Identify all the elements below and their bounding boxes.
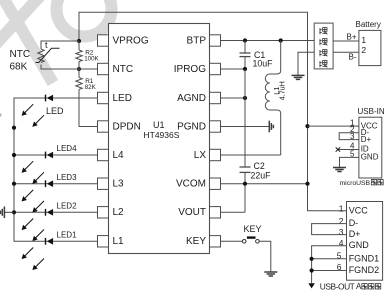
ground PGND (sideways) (269, 121, 273, 133)
pin DPDN (U1 pin box) (98, 121, 141, 133)
wire BTP to battery protection (221, 40, 315, 42)
svg-text:VPROG: VPROG (113, 35, 149, 46)
svg-text:microUSB: microUSB (340, 180, 371, 187)
pin VPROG (U1 pin box) (98, 35, 149, 47)
node rail mid dot (12, 126, 16, 130)
connector USB-OUT (type A) (337, 202, 383, 281)
svg-text:10uF: 10uF (253, 59, 274, 69)
svg-text:HT4936S: HT4936S (144, 130, 180, 140)
wire top rail from NTC divider to right rail (79, 12, 347, 211)
wire AGND to vertical (221, 97, 246, 99)
wire USB-OUT D-/D+ jumper (312, 224, 347, 235)
pin L4 (U1 pin box) (98, 149, 125, 161)
battery connector (356, 20, 381, 65)
svg-text:Battery: Battery (356, 20, 381, 29)
node FGND2 junction (310, 268, 314, 272)
node AGND junction (243, 96, 247, 100)
svg-text:2: 2 (339, 216, 344, 226)
svg-text:LED2: LED2 (57, 202, 78, 211)
wire VOUT up to VCOM net (221, 211, 246, 213)
wire B+ to battery (333, 40, 359, 42)
label USB-OUT A型母座 (320, 282, 381, 292)
node rail-L4 junction (12, 153, 16, 157)
LED D-LED (top) (22, 95, 97, 127)
svg-text:LED3: LED3 (57, 173, 78, 182)
ground USB-IN (333, 168, 346, 172)
svg-text:L3: L3 (113, 179, 125, 190)
svg-text:FGND1: FGND1 (349, 253, 380, 263)
svg-text:VCC: VCC (349, 205, 369, 215)
wire USB-IN D-/D+ jumper (339, 133, 359, 140)
thermistor NTC 68K (36, 41, 79, 69)
IC U1 HT4936S body (109, 24, 210, 254)
ground (left edge, sideways) (0, 207, 14, 219)
node rail-USBIN VCC junction (305, 124, 309, 128)
battery protection module 锂电保护 (314, 23, 333, 69)
wire USB-OUT GND/FGND tie (312, 246, 347, 284)
pin L2 (U1 pin box) (98, 207, 125, 219)
svg-text:1: 1 (339, 203, 344, 213)
svg-text:LX: LX (194, 150, 207, 161)
wire USB-IN VCC to rail (308, 125, 359, 127)
svg-text:L1: L1 (113, 236, 125, 247)
pin VOUT (U1 pin box) (178, 207, 220, 219)
wire vertical C1 to C2 (244, 69, 246, 167)
svg-text:LED: LED (113, 93, 132, 104)
svg-text:IPROG: IPROG (174, 64, 206, 75)
wire IPROG to C1 (221, 68, 246, 70)
svg-text:FGND2: FGND2 (349, 265, 380, 275)
wire PGND stub (221, 126, 269, 128)
svg-text:PGND: PGND (177, 121, 206, 132)
svg-text:VOUT: VOUT (178, 207, 206, 218)
svg-text:4: 4 (339, 238, 344, 248)
pin NTC (U1 pin box) (98, 63, 134, 75)
svg-text:A: A (356, 282, 362, 291)
wire USB-IN GND (340, 157, 359, 167)
pin BTP (U1 pin box) (187, 35, 221, 47)
svg-text:1: 1 (361, 35, 366, 45)
svg-text:KEY: KEY (244, 224, 262, 234)
inductor L1 4.7uH (265, 41, 280, 156)
svg-text:NTC: NTC (113, 64, 134, 75)
label microUSB母座 (340, 180, 384, 187)
svg-text:L2: L2 (113, 207, 125, 218)
svg-text:B-: B- (349, 52, 357, 61)
node VCOM-C2 junction (243, 182, 247, 186)
svg-text:100K: 100K (84, 56, 99, 63)
svg-text:DPDN: DPDN (113, 121, 141, 132)
node NTC divider mid junction (77, 67, 81, 71)
svg-text:USB-IN: USB-IN (358, 107, 385, 116)
svg-text:68K: 68K (10, 62, 28, 73)
pin IPROG (U1 pin box) (174, 63, 221, 75)
svg-text:U1: U1 (153, 120, 165, 130)
resistor R2 100K (76, 41, 82, 69)
pin L1 (U1 pin box) (98, 236, 125, 248)
wire LED anode rail (left) (14, 98, 47, 241)
LED LED4 (22, 144, 97, 183)
wire B- to battery (333, 51, 359, 53)
node BTP-C1 junction (243, 38, 247, 42)
watermark fragment left edge (0, 113, 1, 116)
svg-text:D-: D- (349, 218, 359, 228)
connector USB-IN (microUSB) (350, 107, 385, 178)
svg-text:GND: GND (349, 240, 370, 250)
svg-text:BTP: BTP (187, 35, 207, 46)
svg-text:82K: 82K (85, 84, 97, 91)
pin KEY (U1 pin box) (186, 236, 221, 248)
pin L3 (U1 pin box) (98, 178, 125, 190)
svg-text:L4: L4 (113, 150, 125, 161)
watermark (0, 0, 112, 83)
ground B- (292, 75, 305, 79)
ground KEY (264, 272, 277, 276)
ground USB-OUT arrow (308, 283, 315, 288)
node FGND1 junction (310, 257, 314, 261)
pin LX (U1 pin box) (194, 149, 221, 161)
capacitor C2 22uF (240, 167, 251, 212)
svg-text:2: 2 (361, 45, 366, 55)
svg-text:GND: GND (361, 153, 379, 162)
svg-text:B+: B+ (346, 33, 356, 42)
node VCOM-rail junction (305, 182, 309, 186)
svg-text:22uF: 22uF (251, 170, 272, 180)
pin LED (U1 pin box) (98, 92, 132, 104)
svg-text:t: t (45, 40, 48, 50)
node IPROG junction (243, 67, 247, 71)
svg-text:AGND: AGND (177, 93, 206, 104)
svg-text:LED4: LED4 (57, 144, 78, 153)
node rail-L3 junction (12, 182, 16, 186)
resistor R1 82K (76, 69, 98, 127)
capacitor C1 10uF (240, 41, 251, 70)
svg-text:LED1: LED1 (57, 231, 78, 240)
wire B- to ground (298, 52, 314, 75)
pin AGND (U1 pin box) (177, 92, 220, 104)
svg-text:3: 3 (339, 227, 344, 237)
svg-text:C2: C2 (254, 161, 265, 171)
node NTC divider top junction (77, 39, 81, 43)
svg-text:LED: LED (46, 106, 64, 116)
wire NTC pin to divider (79, 68, 98, 70)
node rail-L2 junction (12, 210, 16, 214)
wire LX to inductor (221, 154, 281, 156)
svg-text:USB-OUT: USB-OUT (320, 282, 355, 292)
svg-text:D+: D+ (361, 135, 372, 144)
wire VCOM to right rail (221, 183, 308, 185)
switch KEY pushbutton (221, 224, 271, 272)
svg-text:KEY: KEY (186, 236, 206, 247)
svg-text:VCOM: VCOM (176, 179, 206, 190)
svg-text:NTC: NTC (10, 49, 31, 60)
LED LED3 (22, 173, 97, 212)
LED LED2 (22, 202, 97, 241)
LED LED1 (22, 231, 97, 270)
pin PGND (U1 pin box) (177, 121, 220, 133)
wire USB-IN ID no-connect (336, 147, 359, 151)
svg-text:4.7uH: 4.7uH (278, 81, 287, 100)
node BTP-L1 junction (279, 38, 283, 42)
pin VCOM (U1 pin box) (176, 178, 221, 190)
svg-text:D+: D+ (349, 229, 361, 239)
